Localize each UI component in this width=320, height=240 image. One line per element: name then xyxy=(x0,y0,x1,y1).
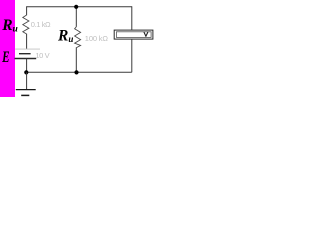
junction node bottom-left xyxy=(24,70,28,74)
voltmeter box inner window xyxy=(116,32,151,38)
ground short bar xyxy=(21,94,29,96)
wire left mid xyxy=(26,34,28,49)
wire middle upper xyxy=(75,7,77,27)
wire middle lower xyxy=(75,47,77,72)
svg-text:10 V: 10 V xyxy=(35,51,49,60)
junction node bottom-middle xyxy=(74,70,78,74)
battery E long plate xyxy=(15,58,37,60)
svg-text:100 kΩ: 100 kΩ xyxy=(85,34,109,43)
svg-text:Rи: Rи xyxy=(1,17,18,35)
svg-text:0.1 kΩ: 0.1 kΩ xyxy=(31,20,51,29)
wire bottom xyxy=(27,71,132,73)
wire right lower xyxy=(131,39,133,72)
wire left upper xyxy=(26,6,28,15)
svg-text:E: E xyxy=(1,48,9,65)
voltmeter box outer xyxy=(114,30,153,39)
junction node top-middle xyxy=(74,5,78,9)
voltmeter V label xyxy=(144,32,148,36)
wire right upper xyxy=(131,6,133,30)
ground long bar xyxy=(16,89,36,91)
wire top xyxy=(27,6,132,8)
resistor R_i zigzag xyxy=(23,15,29,34)
battery E top faint plate xyxy=(15,48,40,50)
battery E short plate xyxy=(19,53,31,55)
ground stem xyxy=(26,72,28,89)
highlight stripe xyxy=(0,0,15,97)
svg-text:Rи: Rи xyxy=(57,27,73,44)
wire left lower xyxy=(26,59,28,73)
resistor R_n zigzag xyxy=(75,27,81,48)
